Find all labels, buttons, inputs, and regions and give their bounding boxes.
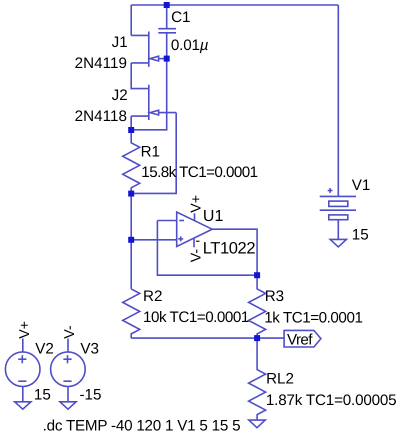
wire bottom rail — [131, 337, 284, 339]
flag V+ at op-amp V+ pin — [189, 195, 205, 213]
wire J1 source to J2 drain — [131, 63, 149, 89]
svg-text:Vref: Vref — [287, 331, 313, 348]
svg-text:2N4118: 2N4118 — [75, 108, 127, 125]
svg-text:1.87k TC1=0.00005: 1.87k TC1=0.00005 — [266, 392, 397, 409]
svg-text:V3: V3 — [80, 340, 99, 357]
svg-text:R2: R2 — [143, 288, 162, 305]
svg-text:LT1022: LT1022 — [203, 240, 256, 258]
svg-text:0.01µ: 0.01µ — [171, 37, 209, 54]
resistor RL2 — [249, 338, 266, 420]
wire V1 top feed — [337, 5, 339, 196]
svg-text:R3: R3 — [265, 288, 284, 305]
svg-text:.dc TEMP -40 120 1 V1 5 15 5: .dc TEMP -40 120 1 V1 5 15 5 — [43, 418, 241, 435]
flag V+ at V2 — [17, 321, 33, 339]
capacitor C1 — [158, 5, 176, 59]
junction nodes — [128, 2, 260, 341]
svg-text:C1: C1 — [171, 9, 190, 26]
svg-text:V1: V1 — [352, 177, 371, 194]
transistor J2 — [131, 85, 176, 120]
op-amp U1 — [177, 212, 213, 247]
flag V- at V3 — [62, 325, 78, 339]
svg-text:V-: V- — [62, 325, 78, 339]
svg-text:V+: V+ — [189, 195, 205, 213]
node Vref rail — [254, 335, 260, 341]
svg-text:10k TC1=0.0001: 10k TC1=0.0001 — [143, 309, 249, 326]
svg-text:R1: R1 — [141, 143, 160, 160]
flag Vref — [284, 330, 321, 347]
resistor R1 — [123, 130, 140, 193]
node J1 gate / C1 — [164, 56, 170, 62]
node output / R3 top — [254, 272, 260, 278]
ground RL2 — [249, 420, 265, 428]
voltage source V3 — [51, 339, 86, 402]
resistor R2 — [123, 289, 140, 338]
svg-text:V-: V- — [188, 249, 204, 263]
node J2 source — [128, 127, 134, 133]
wire J2 source down — [130, 116, 132, 130]
ground V2 — [15, 402, 31, 409]
node top rail / C1 — [164, 2, 170, 8]
wire left drop to J1 drain — [130, 5, 132, 35]
flag V- at op-amp V- pin — [188, 249, 204, 263]
node R1 bottom — [128, 191, 134, 197]
svg-text:V2: V2 — [35, 340, 54, 357]
svg-text:-15: -15 — [80, 386, 102, 403]
transistor J1 — [131, 32, 167, 67]
wire C1 bottom / J1 gate node down to J2 source node — [131, 59, 167, 130]
wire op-amp +input — [131, 239, 177, 241]
svg-text:U1: U1 — [203, 208, 224, 225]
svg-text:RL2: RL2 — [266, 371, 294, 388]
svg-text:-: - — [195, 233, 200, 249]
node op-amp +input — [128, 237, 134, 243]
ground V3 — [60, 402, 76, 409]
wire op-amp output — [212, 229, 257, 275]
resistor R3 — [249, 275, 266, 338]
svg-text:V+: V+ — [17, 321, 33, 339]
voltage source V1 battery — [320, 188, 356, 239]
wire feedback loop — [157, 221, 257, 276]
svg-text:15: 15 — [34, 386, 51, 403]
wire feedback to -input — [157, 220, 176, 222]
pin label minus at op-amp V- pin — [195, 233, 200, 249]
svg-text:J1: J1 — [112, 34, 128, 51]
ground V1 — [330, 239, 346, 247]
svg-text:15: 15 — [352, 227, 369, 244]
voltage source V2 — [5, 339, 40, 402]
wire J2 gate drop to R1 bottom — [131, 113, 176, 194]
wire top rail — [131, 4, 338, 6]
svg-text:2N4119: 2N4119 — [75, 55, 127, 72]
svg-text:15.8k TC1=0.0001: 15.8k TC1=0.0001 — [141, 164, 258, 181]
svg-text:J2: J2 — [112, 87, 128, 104]
wire mid column R1 bottom to R2 — [130, 193, 132, 289]
svg-text:1k TC1=0.0001: 1k TC1=0.0001 — [264, 310, 363, 327]
